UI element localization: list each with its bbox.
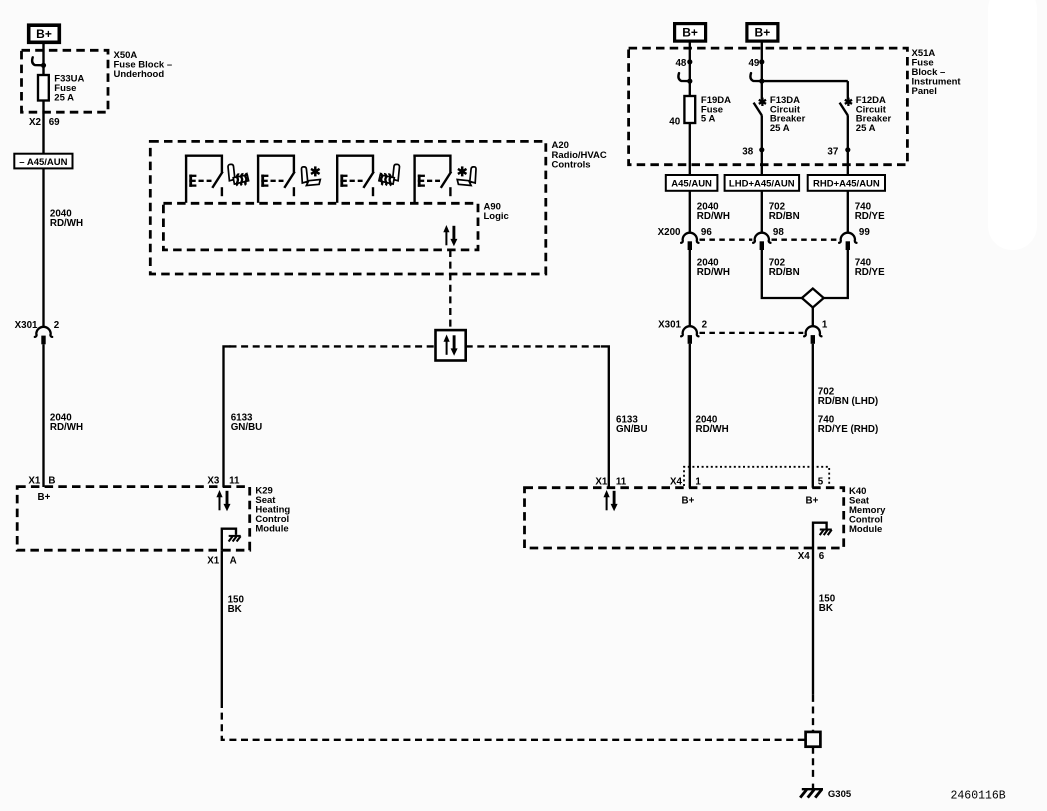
svg-text:48: 48: [675, 58, 686, 69]
svg-text:B: B: [48, 475, 55, 486]
circuit breaker F12DA: [840, 98, 852, 116]
F33UA value label: [54, 73, 84, 103]
fuse block X50A dashed box: [22, 50, 109, 112]
junction block square: [806, 732, 821, 747]
pin 37: [827, 146, 850, 157]
svg-text:25 A: 25 A: [856, 123, 876, 134]
svg-text:RD/BN (LHD): RD/BN (LHD): [818, 396, 878, 407]
wire label 150 BK (right): [819, 594, 836, 615]
wire label 740 RD/YE (RHD): [818, 414, 878, 435]
svg-text:X301: X301: [658, 320, 681, 331]
wire 740 to splice diamond: [824, 250, 848, 298]
dashed wire junction to ground: [812, 747, 814, 780]
module K40 dashed box: [525, 488, 844, 548]
module K29 dashed box: [17, 487, 250, 551]
svg-text:X4: X4: [670, 476, 683, 487]
svg-text:25 A: 25 A: [54, 92, 74, 103]
net label box RHD+A45/AUN: [808, 175, 885, 191]
wire X301-2 to K40 X4-1: [689, 344, 691, 488]
svg-text:5: 5: [818, 476, 824, 487]
signal arrows in K29: [216, 490, 230, 511]
svg-text:GN/BU: GN/BU: [616, 424, 648, 435]
svg-text:BK: BK: [228, 604, 242, 615]
svg-text:B+: B+: [38, 492, 51, 503]
seat heat icon 3 (mirrored): [379, 164, 400, 185]
svg-text:B+: B+: [36, 27, 52, 41]
svg-text:Underhood: Underhood: [114, 69, 165, 80]
wire label 6133 GN/BU (left): [231, 413, 263, 434]
F12DA value label: [856, 95, 892, 134]
wire 702 to splice diamond: [762, 250, 802, 298]
seat cool icon 2: [301, 166, 320, 185]
logic block A90 dashed box: [163, 203, 478, 250]
A20 label: [552, 140, 607, 170]
svg-text:1: 1: [822, 320, 828, 331]
svg-text:B+: B+: [682, 496, 695, 507]
wire A45 to X301: [42, 168, 44, 327]
K29 module label: [255, 485, 290, 534]
battery feed B+ (mid): [675, 24, 706, 41]
wire B+ down through F19DA: [689, 42, 691, 175]
svg-text:98: 98: [773, 227, 784, 238]
F19DA value label: [701, 95, 731, 124]
wire label 2040 RD/WH (to K40): [696, 414, 729, 435]
seat heat icon 1: [228, 164, 249, 185]
fuse F19DA: [684, 96, 695, 123]
svg-text:RD/BN: RD/BN: [769, 267, 800, 278]
scan artifact white band top-right: [988, 0, 1037, 250]
connector stub symbol on fuse feed: [32, 57, 46, 68]
svg-text:BK: BK: [819, 603, 833, 614]
connector X4 dotted bracket: [684, 467, 829, 486]
solid elbow right: [601, 346, 609, 487]
dashed ground run to G305: [222, 701, 806, 740]
solid elbow left: [224, 346, 231, 487]
A90 label: [484, 202, 509, 223]
svg-text:11: 11: [616, 476, 627, 487]
svg-text:– A45/AUN: – A45/AUN: [19, 157, 67, 168]
net label box A45/AUN: [666, 175, 718, 191]
signal arrows in A90: [443, 225, 457, 246]
svg-text:6: 6: [819, 551, 825, 562]
wires label boxes to X200: [689, 191, 691, 234]
wire B+ to A45/AUN label: [42, 43, 44, 154]
svg-text:RD/BN: RD/BN: [769, 211, 800, 222]
svg-text:RD/WH: RD/WH: [50, 218, 83, 229]
X50A label: [114, 50, 173, 80]
splice diamond: [802, 289, 824, 308]
wire X301 to K29: [42, 344, 44, 487]
internal ground elbow K29: [222, 529, 241, 551]
pin label X3 11: [207, 475, 240, 486]
svg-text:G305: G305: [828, 789, 852, 800]
svg-text:69: 69: [49, 117, 60, 128]
svg-text:RD/WH: RD/WH: [697, 267, 730, 278]
svg-text:49: 49: [748, 58, 759, 69]
dashed ground wire to junction: [812, 695, 814, 732]
serial data node box with arrows: [436, 330, 466, 360]
battery feed B+ (right): [747, 24, 778, 41]
svg-text:Module: Module: [255, 523, 288, 534]
svg-text:25 A: 25 A: [770, 123, 790, 134]
svg-text:A: A: [230, 556, 237, 567]
connector stub on F19DA feed: [678, 73, 692, 84]
pin label X2 69: [29, 117, 60, 128]
connector X200: [658, 227, 871, 250]
svg-text:99: 99: [859, 227, 870, 238]
battery feed B+ (left): [29, 25, 60, 42]
switch S1 (LH heated seat): [185, 155, 223, 203]
net label A45/AUN box: [14, 154, 72, 169]
connector X301 pin 2 (left): [15, 320, 60, 345]
svg-text:RHD+A45/AUN: RHD+A45/AUN: [813, 178, 880, 189]
wire labels row 2: [697, 258, 885, 279]
svg-text:RD/YE (RHD): RD/YE (RHD): [818, 424, 878, 435]
wire X200-96 to X301-2: [689, 250, 691, 327]
svg-text:X301: X301: [15, 320, 38, 331]
pin label X1 11: [595, 476, 626, 487]
fuse F33UA: [38, 75, 49, 101]
svg-text:5 A: 5 A: [701, 114, 716, 125]
svg-text:2: 2: [702, 320, 708, 331]
svg-text:11: 11: [229, 475, 240, 486]
branch wire to F12DA: [762, 80, 848, 82]
svg-text:Controls: Controls: [552, 159, 591, 170]
wire label 6133 GN/BU (right): [616, 414, 648, 435]
svg-text:1: 1: [695, 476, 701, 487]
internal ground elbow K40: [813, 523, 832, 548]
switch S4 (RH cooled seat): [413, 155, 451, 203]
svg-text:X1: X1: [28, 475, 41, 486]
svg-text:LHD+A45/AUN: LHD+A45/AUN: [729, 178, 795, 189]
svg-text:B+: B+: [755, 25, 771, 39]
signal arrows in K40: [604, 490, 618, 511]
svg-text:B+: B+: [806, 496, 819, 507]
svg-text:Module: Module: [849, 524, 882, 535]
svg-text:GN/BU: GN/BU: [231, 422, 263, 433]
svg-text:A45/AUN: A45/AUN: [671, 178, 712, 189]
dashed logic wire down from A90: [449, 250, 451, 330]
svg-text:X2: X2: [29, 117, 42, 128]
ground G305: [800, 789, 852, 800]
svg-text:Logic: Logic: [484, 211, 509, 222]
svg-text:RD/WH: RD/WH: [50, 422, 83, 433]
svg-text:RD/YE: RD/YE: [855, 211, 885, 222]
connector X301 (right): [658, 320, 828, 344]
svg-text:Panel: Panel: [912, 86, 937, 97]
pin 49: [748, 58, 764, 69]
svg-text:RD/WH: RD/WH: [697, 211, 730, 222]
wire label 702 RD/BN (LHD): [818, 386, 878, 407]
switch S3 (RH heated seat): [336, 155, 374, 203]
svg-text:X1: X1: [595, 476, 608, 487]
svg-text:B+: B+: [682, 25, 698, 39]
svg-text:2: 2: [54, 320, 60, 331]
ground wire from K40: [812, 548, 814, 695]
wire X301-1 to K40 X4-5: [812, 344, 814, 488]
wire label 150 BK (left): [228, 594, 245, 615]
pin 38: [742, 146, 764, 157]
svg-text:RD/WH: RD/WH: [696, 424, 729, 435]
svg-text:38: 38: [742, 146, 753, 157]
control head A20 dashed box: [150, 141, 546, 274]
connector stub on F13DA feed: [750, 73, 764, 84]
wire label 2040 RD/WH upper: [50, 208, 83, 229]
pin 48: [675, 58, 692, 69]
svg-text:X200: X200: [658, 227, 681, 238]
svg-text:X3: X3: [207, 475, 220, 486]
svg-text:X1: X1: [207, 556, 220, 567]
svg-text:40: 40: [669, 116, 680, 127]
svg-text:96: 96: [701, 227, 712, 238]
wire down through F12DA: [847, 81, 849, 100]
svg-text:37: 37: [827, 146, 838, 157]
F13DA value label: [770, 95, 806, 134]
wire diamond to X301-1: [812, 308, 814, 327]
K40 module label: [849, 486, 886, 535]
svg-text:X4: X4: [798, 551, 811, 562]
X51A label: [912, 48, 962, 97]
svg-text:RD/YE: RD/YE: [855, 267, 885, 278]
wire B+ down through F13DA: [761, 42, 763, 100]
ground wire from K29: [221, 550, 223, 701]
circuit breaker F13DA: [754, 98, 766, 116]
pin label X1 A: [207, 556, 236, 567]
fuse block X51A dashed box: [629, 48, 908, 165]
switch S2 (LH cooled seat): [257, 155, 295, 203]
ground stub: [812, 784, 814, 790]
pin label X4 6: [798, 551, 825, 562]
svg-text:2460116B: 2460116B: [951, 790, 1006, 803]
wire label 2040 RD/WH lower: [50, 413, 83, 434]
dashed wire left from node box: [230, 345, 436, 347]
wire labels row 1: [697, 201, 885, 222]
pin label X1 B: [28, 475, 55, 486]
net label box LHD+A45/AUN: [725, 175, 800, 191]
dashed wire right from node box: [466, 345, 602, 347]
seat cool icon 4 (mirrored): [457, 166, 476, 185]
